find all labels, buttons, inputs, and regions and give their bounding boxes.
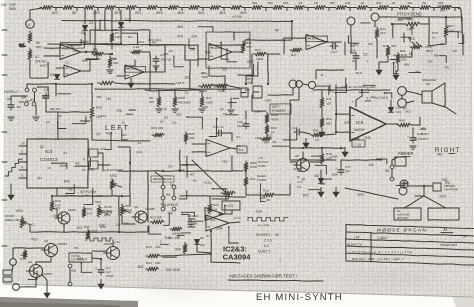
wire s6 up	[392, 157, 398, 165]
svg-text:10K: 10K	[155, 261, 161, 265]
wire stub 46	[439, 56, 446, 63]
diode D2	[83, 21, 94, 30]
junction J25	[100, 258, 102, 260]
label anno 3	[191, 35, 198, 39]
wire ff right	[98, 164, 110, 166]
label anno 80	[193, 221, 198, 225]
wire mid link c	[185, 45, 198, 60]
svg-text:110K: 110K	[206, 101, 213, 105]
wire pb inner2	[398, 50, 412, 57]
label anno 58	[40, 145, 45, 149]
label C21	[226, 204, 234, 208]
svg-text:150K: 150K	[247, 60, 254, 64]
ground input	[8, 117, 14, 121]
speaker cone c	[444, 83, 446, 107]
svg-text:Q2: Q2	[220, 107, 224, 111]
jack power b	[399, 187, 407, 195]
arrow PR2 a	[412, 42, 415, 45]
wire jack bus	[303, 84, 308, 85]
label S6	[385, 169, 389, 173]
label P M2	[258, 164, 266, 168]
wire chain junction 9	[243, 7, 251, 9]
wire stub2 63	[195, 220, 203, 222]
svg-text:100R: 100R	[344, 120, 351, 124]
svg-text:10K?: 10K?	[421, 137, 428, 141]
svg-text:R26 10R: R26 10R	[151, 126, 164, 130]
IC U4 CD4013	[27, 139, 88, 188]
svg-text:54A: 54A	[264, 141, 269, 145]
svg-text:→ 502 ANS: → 502 ANS	[161, 268, 181, 272]
svg-text:1K: 1K	[319, 104, 323, 108]
label STOP	[104, 205, 112, 209]
plug P2 pin	[253, 91, 259, 93]
capacitor C4	[95, 266, 110, 275]
resistor R19	[50, 199, 61, 211]
resistor R36	[23, 250, 27, 259]
svg-text:+: +	[335, 167, 337, 171]
zener D6	[389, 108, 394, 113]
wire pb mid2	[396, 64, 398, 71]
wire octave riser	[118, 147, 130, 205]
label DO 5C1	[258, 160, 269, 164]
svg-text:150K: 150K	[254, 109, 261, 113]
label QUIET	[258, 250, 271, 254]
junction R2 R5	[109, 53, 111, 55]
wire q2 bus	[119, 226, 148, 232]
wire q5 r46	[310, 161, 322, 163]
svg-text:+.4ʌ: +.4ʌ	[114, 240, 120, 244]
wire ic3 out	[229, 222, 240, 223]
label anno2 53	[444, 66, 449, 70]
label anno 84	[29, 222, 35, 226]
svg-text:R24: R24	[77, 257, 83, 261]
svg-text:1K5: 1K5	[189, 136, 195, 140]
svg-text:EH MINI-SYNTH: EH MINI-SYNTH	[256, 292, 343, 303]
svg-text:6R5: 6R5	[283, 1, 289, 5]
wire d6 up	[390, 100, 392, 107]
svg-text:ALKALINE: ALKALINE	[397, 213, 410, 217]
wire stub 35	[315, 165, 326, 174]
label FREQ 10K	[5, 218, 20, 222]
wiper VR1	[411, 26, 414, 35]
table row line 3	[346, 246, 474, 250]
wire margin tick 6	[2, 245, 7, 247]
wire chain tick 15	[370, 8, 372, 11]
resistor chain R119	[418, 6, 431, 10]
wire s5 b	[173, 189, 175, 196]
wire stub 45	[459, 34, 464, 43]
label anno 9	[82, 59, 89, 63]
label anno 72	[161, 202, 167, 206]
wire plug link	[229, 86, 240, 88]
label 5V	[297, 175, 301, 179]
label anno 29	[350, 43, 355, 47]
svg-text:.01: .01	[63, 151, 68, 155]
svg-text:FREQ 10K: FREQ 10K	[5, 218, 20, 222]
svg-text:MØØSE ØRGAN: MØØSE ØRGAN	[377, 228, 427, 234]
wire pb bottom link	[403, 33, 405, 42]
resistor R32b	[261, 189, 275, 203]
svg-text:C-MAJ !: C-MAJ !	[377, 236, 389, 240]
capacitor input	[8, 102, 14, 110]
resistor R33b	[261, 137, 272, 141]
svg-text:R4D?: R4D?	[421, 132, 429, 136]
label anno2 69	[296, 169, 301, 173]
resistor trim1	[265, 113, 279, 124]
label anno 75	[331, 155, 339, 159]
switch S5 a	[161, 185, 165, 189]
label anno2 72	[440, 194, 446, 198]
resistor chain R112	[271, 6, 284, 10]
svg-text:10K: 10K	[96, 95, 102, 99]
junction J0	[84, 43, 86, 45]
label L93	[176, 81, 185, 85]
label 1pc	[297, 185, 302, 189]
svg-text:Q2: Q2	[75, 162, 79, 166]
svg-text:24068T: 24068T	[42, 272, 52, 276]
svg-text:.01: .01	[413, 137, 417, 141]
label IC5	[356, 120, 364, 125]
resistor chain R115	[334, 6, 347, 10]
svg-text:.01: .01	[184, 90, 188, 94]
wire bus y44	[48, 44, 198, 45]
label anno 53	[59, 164, 68, 168]
svg-text:3K1: 3K1	[198, 11, 205, 15]
svg-text:2K4: 2K4	[183, 163, 189, 167]
wire stub 17	[187, 117, 202, 129]
wire stub2 80	[233, 97, 239, 99]
pin stub IC4 R	[19, 169, 27, 171]
wire stub 33	[212, 194, 229, 199]
wire op4 drop	[283, 38, 285, 54]
svg-text:2K9: 2K9	[93, 11, 100, 15]
svg-text:1609?: 1609?	[68, 208, 77, 212]
junction stub 15	[37, 86, 39, 88]
svg-text:IC4: IC4	[45, 149, 53, 155]
wire spk link	[406, 91, 422, 95]
svg-text:1M: 1M	[369, 163, 374, 167]
jack aux b	[308, 81, 315, 88]
label 5K	[36, 41, 41, 45]
svg-text:1K4: 1K4	[87, 212, 93, 216]
label chain top 5R8_1	[268, 1, 274, 5]
resistor R6	[131, 45, 142, 54]
label Q5 type	[293, 167, 303, 171]
capacitor C20	[407, 132, 423, 143]
label LEFT	[105, 125, 130, 132]
label anno 78	[165, 236, 171, 240]
wire stub2 61	[163, 256, 176, 258]
wire ic5 top pin	[356, 96, 362, 107]
svg-text:CØVER 2R4: CØVER 2R4	[440, 243, 457, 247]
wire mid v232	[231, 156, 233, 171]
resistor R14	[375, 27, 386, 39]
label pb extra2	[432, 36, 436, 40]
wire r41 link	[321, 108, 323, 116]
svg-text:VR2: VR2	[110, 174, 117, 178]
wire stub2 50	[390, 59, 396, 61]
label anno 66	[192, 179, 197, 183]
svg-text:R34: R34	[146, 261, 152, 265]
svg-text:150K: 150K	[52, 213, 59, 217]
label chain value 2K9	[93, 11, 100, 15]
resistor chain R109	[208, 6, 221, 10]
wire mid link b	[156, 45, 165, 72]
svg-text:.066: .066	[18, 100, 24, 104]
wire q5b link	[92, 250, 106, 252]
svg-text:20K: 20K	[113, 61, 119, 65]
svg-text:470R: 470R	[271, 118, 279, 122]
svg-text:✕: ✕	[120, 185, 123, 189]
resistor R46	[320, 152, 332, 164]
svg-text:10µF: 10µF	[237, 124, 244, 128]
wire stub 11	[401, 37, 410, 41]
wire S1 link	[34, 92, 36, 102]
svg-text:+9V: +9V	[222, 160, 229, 164]
svg-text:D 4: D 4	[264, 244, 269, 248]
label anno2 80	[223, 112, 227, 116]
capacitor C17	[335, 165, 351, 175]
junction J26	[118, 231, 120, 233]
label anno 31	[203, 105, 209, 109]
svg-text:A6.1: A6.1	[138, 40, 145, 44]
wire r45 right	[411, 117, 420, 125]
label PM-2	[426, 49, 433, 53]
label PR2	[408, 37, 415, 41]
svg-text:R43: R43	[313, 129, 319, 133]
wire stub2 82	[359, 91, 369, 93]
svg-text:8K2: 8K2	[397, 18, 403, 22]
junction stub 25	[66, 193, 68, 195]
wire bus y160	[290, 159, 336, 161]
ground R5	[107, 70, 113, 74]
resistor R70	[90, 105, 102, 119]
svg-text:-4ʌ: -4ʌ	[70, 45, 75, 49]
wire op4 out drop	[344, 42, 346, 55]
wire chain junction 5	[159, 7, 167, 9]
table row1 a	[347, 243, 362, 247]
svg-text:1K: 1K	[164, 107, 168, 111]
svg-text:10K: 10K	[261, 196, 267, 200]
label anno 17	[246, 37, 251, 41]
resistor chain R106	[145, 6, 158, 10]
wire stub2 53	[409, 72, 421, 74]
wire ic3 in	[190, 218, 195, 220]
potentiometer VR1	[404, 18, 421, 32]
resistor chain R105	[124, 6, 137, 10]
svg-text:¼LM339: ¼LM339	[211, 46, 222, 50]
resistor R41	[320, 96, 332, 108]
op-amp IC5 power amp	[350, 107, 386, 141]
wire ic2a out	[230, 148, 237, 149]
svg-text:J3 →: J3 →	[320, 73, 327, 77]
wire chain tick 9	[244, 8, 246, 11]
wire margin tick 5	[2, 199, 7, 201]
resistor R5	[108, 56, 119, 68]
svg-text:VR1: VR1	[407, 18, 414, 22]
svg-text:S6: S6	[385, 169, 389, 173]
op-amp IC1e LM339	[306, 35, 327, 50]
svg-text:-4ʌ: -4ʌ	[192, 179, 197, 183]
svg-text:28x: 28x	[266, 198, 271, 202]
wire bottom right link	[211, 255, 240, 263]
svg-text:+: +	[407, 135, 409, 139]
switch S5 b	[172, 185, 176, 189]
label hn extra2	[279, 257, 282, 261]
svg-text:10K: 10K	[123, 221, 128, 225]
label row C	[264, 239, 272, 243]
svg-text:5R2 ↓: 5R2 ↓	[440, 9, 448, 13]
underline voltages	[228, 280, 323, 281]
label 3c3	[210, 218, 215, 222]
svg-text:2K2: 2K2	[76, 226, 82, 230]
wire chain tick 2	[97, 8, 99, 11]
svg-text:100R: 100R	[250, 165, 257, 169]
resistor R28	[183, 243, 187, 254]
label anno 76	[320, 182, 326, 186]
wire chain right end	[458, 8, 462, 30]
svg-text:22K: 22K	[149, 100, 154, 104]
label hn extra1	[258, 223, 270, 227]
label SPEAKER	[422, 78, 437, 82]
label 4L6	[20, 253, 25, 257]
wire bus y171 left	[118, 170, 150, 172]
junction J13	[361, 89, 363, 91]
svg-text:8K2: 8K2	[400, 49, 406, 53]
label anno 101	[264, 99, 271, 103]
svg-text:150K: 150K	[215, 227, 224, 231]
svg-text:L93 ↦: L93 ↦	[176, 81, 185, 85]
label anno 26	[404, 63, 411, 67]
label TANT	[106, 274, 114, 278]
switch S3 b	[68, 282, 72, 286]
speaker cone b	[432, 103, 445, 107]
resistor R31	[244, 176, 256, 186]
label anno 11	[81, 40, 90, 44]
jack pb	[347, 17, 355, 25]
svg-text:IN DAYT M: IN DAYT M	[347, 243, 362, 247]
svg-text:5%: 5%	[74, 246, 79, 250]
wire row verticals 2	[174, 90, 176, 95]
wire ic2b out	[224, 210, 232, 214]
resistor R22	[208, 202, 219, 214]
label anno2 51	[363, 52, 367, 56]
wire D1 bottom	[120, 28, 122, 44]
wire battery bus	[408, 185, 433, 187]
pin label Q2	[83, 157, 86, 161]
switch S5 e	[161, 207, 165, 211]
label chain top 4R4_10	[407, 1, 413, 5]
svg-text:+9V: +9V	[296, 169, 301, 173]
label batt b	[397, 213, 410, 217]
wire stub 14	[209, 119, 217, 137]
op-amp IC1a LM339	[60, 45, 81, 60]
wire stub 39	[149, 226, 161, 234]
label CD4013	[40, 157, 58, 163]
label chain top 2R_7	[361, 1, 365, 5]
wire stub 10	[445, 32, 458, 38]
wire D2 top	[84, 10, 86, 24]
switch S6 b	[390, 177, 394, 181]
junction stub 24	[52, 162, 54, 164]
wire stub 9	[221, 43, 229, 59]
svg-text:.1: .1	[159, 240, 162, 244]
svg-text:+C1?: +C1?	[330, 50, 338, 54]
label chain top 5R6_12	[438, 1, 444, 5]
table row line 2	[346, 239, 474, 243]
wire stub 16	[58, 122, 66, 128]
wire stub 44	[105, 132, 111, 149]
label pb extra4	[399, 60, 401, 64]
svg-text:100R: 100R	[331, 155, 339, 159]
wire row bus	[145, 90, 200, 91]
wire jack link	[12, 265, 13, 272]
ground R42	[319, 128, 325, 138]
speaker cone a	[432, 83, 445, 91]
wire stub 25	[66, 184, 74, 193]
label IC5 type	[353, 128, 365, 132]
label anno 81	[100, 225, 106, 229]
resistor R35	[86, 229, 98, 239]
svg-text:R19: R19	[356, 71, 362, 75]
wire op2 in	[117, 75, 125, 77]
svg-text:1R: 1R	[299, 1, 303, 5]
wire op4 out	[327, 41, 341, 43]
svg-text:32A: 32A	[401, 58, 407, 62]
pin label S	[21, 158, 23, 162]
svg-text:2M2: 2M2	[353, 43, 359, 47]
junction J19	[121, 195, 123, 197]
wire q4 gnd	[42, 275, 47, 289]
svg-text:Q2: Q2	[134, 205, 138, 209]
svg-text:HIGHEST ♩ 6#: HIGHEST ♩ 6#	[256, 233, 279, 237]
wire stub2 66	[324, 178, 332, 180]
svg-text:10K: 10K	[155, 245, 161, 249]
resistor R30	[244, 161, 257, 171]
wire stub 27	[75, 158, 91, 166]
transistor Q1	[55, 206, 70, 224]
label 10p	[200, 243, 205, 247]
box C18	[352, 140, 365, 147]
label anno2 56	[41, 94, 48, 98]
svg-text:4R4: 4R4	[407, 1, 413, 5]
svg-text:.1µ?: .1µ?	[345, 169, 351, 173]
ground C20	[410, 146, 416, 150]
svg-text:R70: R70	[96, 106, 102, 110]
svg-text:VR5: VR5	[125, 204, 131, 208]
svg-text:.1: .1	[366, 59, 369, 63]
ground C17	[333, 188, 339, 198]
wire center drop	[251, 54, 253, 84]
wire stub 37	[229, 227, 239, 243]
label anno 30	[164, 116, 169, 120]
ground R11	[199, 109, 205, 113]
wire chain junction 0	[54, 7, 62, 9]
label anno 64	[168, 164, 173, 168]
svg-text:R18: R18	[432, 31, 438, 35]
op-amp IC2b	[205, 208, 224, 221]
label anno2 68	[301, 177, 306, 181]
connector block b	[3, 277, 12, 282]
label anno 33	[21, 96, 28, 100]
scan blotches	[35, 22, 460, 294]
wire q1 bus	[30, 226, 58, 232]
svg-text:2K1: 2K1	[135, 11, 142, 15]
junction op1 out b	[92, 51, 94, 53]
wire r31 down	[246, 186, 261, 195]
svg-text:C-18: C-18	[355, 143, 362, 147]
wire chain tick 10	[265, 8, 267, 11]
